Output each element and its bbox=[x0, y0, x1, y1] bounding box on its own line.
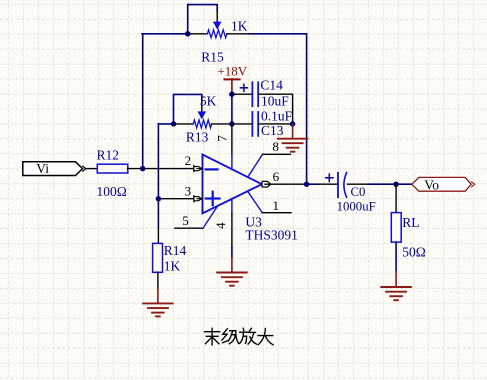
wire C14 right bbox=[259, 94, 292, 124]
wire C13 right bbox=[259, 123, 292, 125]
wire Vo node to RL bbox=[395, 184, 397, 212]
resistor R15 left pin bbox=[188, 33, 208, 35]
pin 8 diagonal bbox=[248, 154, 263, 177]
op-amp plus sign bbox=[206, 197, 220, 199]
node C13/C14 right junction bbox=[290, 121, 296, 127]
op-amp pin 7 line bbox=[231, 124, 233, 155]
pin 2 arrowhead bbox=[193, 166, 195, 172]
port Vi bbox=[23, 162, 83, 176]
wire R15 left horizontal bbox=[142, 33, 188, 35]
ground symbol pin4 bbox=[217, 273, 247, 286]
svg-text:8: 8 bbox=[272, 139, 279, 154]
potentiometer R13 wiper stem bbox=[201, 101, 203, 112]
svg-text:4: 4 bbox=[213, 222, 228, 229]
node R12/feedback junction bbox=[140, 166, 146, 172]
op-amp pin 4 line bbox=[231, 199, 233, 214]
resistor R15 right pin bbox=[227, 33, 249, 35]
power +18V bar bbox=[224, 78, 239, 80]
svg-text:R15: R15 bbox=[201, 50, 224, 65]
svg-text:0.1uF: 0.1uF bbox=[261, 109, 293, 124]
wire RL bottom bbox=[395, 242, 397, 271]
potentiometer R13 wiper arrow bbox=[198, 111, 207, 119]
wire R15 to feedback right vertical bbox=[249, 34, 307, 184]
svg-text:2: 2 bbox=[185, 153, 192, 168]
wire R13 wiper loop bbox=[174, 94, 202, 124]
wire pin 3 bbox=[158, 198, 194, 200]
svg-text:Vi: Vi bbox=[36, 161, 49, 176]
capacitor C13 plates bbox=[251, 112, 253, 136]
ground symbol R14 bbox=[143, 303, 173, 316]
resistor R13 left pin bbox=[174, 123, 194, 125]
ground stub C13 bbox=[292, 124, 294, 138]
wire to C14 bbox=[232, 93, 252, 95]
wire Vi to R12 bbox=[86, 168, 97, 170]
svg-text:Vo: Vo bbox=[424, 177, 439, 192]
node R15 left junction bbox=[185, 31, 191, 37]
resistor R12 body bbox=[97, 164, 128, 173]
pin 6 wire bbox=[265, 183, 307, 185]
svg-text:THS3091: THS3091 bbox=[245, 228, 298, 243]
svg-text:100Ω: 100Ω bbox=[97, 184, 127, 199]
wire R12 to pin2 bbox=[128, 168, 194, 170]
pin 1 wire bbox=[262, 212, 291, 214]
wire to C0 bbox=[307, 183, 319, 185]
svg-text:C0: C0 bbox=[351, 185, 366, 199]
svg-text:6: 6 bbox=[273, 169, 280, 184]
pin 5 wire bbox=[175, 227, 203, 229]
wire R15 wiper loop bbox=[188, 5, 218, 34]
resistor R13 right pin bbox=[212, 123, 232, 125]
svg-text:5K: 5K bbox=[200, 93, 217, 108]
svg-text:7: 7 bbox=[214, 135, 229, 142]
capacitor C14 plates bbox=[251, 82, 253, 106]
pin 1 diagonal bbox=[248, 191, 263, 213]
svg-text:1: 1 bbox=[273, 198, 280, 213]
resistor RL body bbox=[391, 213, 401, 243]
resistor R14 top pin bbox=[157, 229, 159, 244]
node pin3 junction bbox=[156, 196, 162, 202]
op-amp U3 triangle bbox=[203, 155, 262, 214]
resistor R13 zigzag bbox=[193, 120, 211, 128]
wire R13 left corner bbox=[158, 123, 173, 125]
wire R14 bottom bbox=[157, 272, 159, 288]
pin 8 wire bbox=[263, 153, 291, 155]
char FANG (release) bbox=[240, 328, 257, 344]
wire feedback left vertical bbox=[142, 34, 144, 169]
capacitor C0 left plate bbox=[337, 173, 339, 197]
svg-text:5: 5 bbox=[182, 213, 189, 228]
svg-text:R13: R13 bbox=[186, 129, 209, 144]
ground symbol C13 bbox=[278, 139, 308, 152]
pin 6 output arrowhead bbox=[262, 181, 271, 187]
node output junction bbox=[304, 181, 310, 187]
wire pin3 node down bbox=[157, 199, 159, 228]
char JI (stage) bbox=[222, 329, 239, 344]
svg-text:1K: 1K bbox=[164, 259, 181, 274]
wire to C13 bbox=[232, 123, 252, 125]
ground stub R14 bbox=[157, 288, 159, 303]
node Vo junction bbox=[393, 181, 399, 187]
char MO (end) bbox=[205, 328, 220, 345]
capacitor C0 plus sign bbox=[326, 177, 333, 179]
node R13 left junction bbox=[171, 121, 177, 127]
ground symbol RL bbox=[381, 287, 411, 300]
wire pin 4 down bbox=[231, 247, 233, 258]
capacitor C0 right pin bbox=[348, 183, 369, 185]
wire C0 to Vo bbox=[368, 183, 412, 185]
svg-text:1000uF: 1000uF bbox=[337, 200, 376, 214]
svg-text:C13: C13 bbox=[261, 123, 284, 138]
power +18V stub bbox=[231, 79, 233, 92]
pin 5 diagonal bbox=[203, 206, 218, 228]
capacitor C0 left pin bbox=[319, 183, 338, 185]
caption: Chinese title 末级放大 bbox=[205, 328, 274, 345]
potentiometer R15 wiper arrow bbox=[213, 22, 222, 30]
wire R13 node down to pin3 bbox=[157, 124, 159, 199]
resistor R14 body bbox=[153, 243, 163, 272]
svg-text:C14: C14 bbox=[260, 77, 283, 92]
pin 3 arrowhead bbox=[193, 196, 195, 202]
svg-text:3: 3 bbox=[185, 184, 192, 199]
svg-text:RL: RL bbox=[402, 215, 419, 230]
node R13 right junction bbox=[229, 121, 235, 127]
ground stub pin4 bbox=[231, 258, 233, 273]
svg-text:1K: 1K bbox=[231, 19, 248, 34]
wire +18V down to R13 node bbox=[231, 94, 233, 124]
svg-text:+18V: +18V bbox=[217, 64, 247, 79]
capacitor C14 plus sign bbox=[240, 87, 247, 89]
char DA (big) bbox=[258, 328, 273, 344]
capacitor C0 curved plate bbox=[344, 173, 347, 198]
svg-text:50Ω: 50Ω bbox=[402, 244, 426, 259]
svg-text:10uF: 10uF bbox=[261, 93, 289, 108]
ground stub RL bbox=[395, 272, 397, 287]
op-amp minus sign bbox=[206, 168, 218, 170]
svg-text:R12: R12 bbox=[97, 148, 120, 163]
port Vo bbox=[412, 177, 471, 191]
node +18V junction bbox=[229, 91, 235, 97]
resistor R15 zigzag bbox=[207, 30, 227, 38]
potentiometer R15 wiper stem bbox=[216, 11, 218, 22]
svg-text:R14: R14 bbox=[164, 243, 187, 258]
